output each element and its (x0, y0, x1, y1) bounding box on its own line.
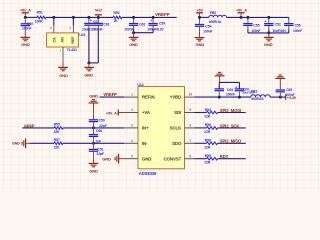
svg-text:+: + (90, 19, 92, 23)
svg-text:RDY: RDY (220, 154, 229, 159)
svg-text:C56: C56 (295, 24, 301, 28)
svg-text:3: 3 (131, 124, 133, 128)
resistor R51 100R (37, 16, 46, 19)
pin 1 (REFIN) stub (124, 96, 138, 98)
wire R56 to net label (218, 127, 246, 129)
svg-text:AN: AN (61, 37, 65, 43)
svg-text:+5V_A: +5V_A (106, 111, 117, 115)
svg-text:6: 6 (189, 154, 191, 158)
svg-text:22R: 22R (204, 161, 211, 165)
svg-text:R54: R54 (205, 108, 211, 112)
svg-text:+VA: +VA (142, 110, 151, 115)
svg-text:U12: U12 (137, 83, 144, 87)
svg-text:100nF: 100nF (293, 29, 302, 33)
node +5V_A junction (240, 16, 243, 19)
svg-text:GND: GND (142, 156, 151, 161)
wire +5V to FB2 (200, 16, 209, 18)
node C63 junction (87, 16, 90, 19)
resistor R57 22K (54, 142, 63, 145)
wire FB2 to +5V_A rail (227, 16, 289, 18)
svg-text:FB2: FB2 (210, 11, 216, 15)
svg-text:GND: GND (102, 156, 111, 161)
svg-text:GND: GND (84, 73, 93, 78)
svg-text:TL431: TL431 (67, 48, 77, 52)
capacitor C56 100nF (288, 17, 290, 19)
ground GND under C63/C61 (88, 63, 90, 67)
svg-text:Vref: Vref (95, 9, 102, 13)
svg-text:C50: C50 (99, 119, 105, 123)
svg-text:1K: 1K (113, 19, 118, 23)
node C63 +VBD junction (218, 96, 221, 99)
svg-text:GND: GND (12, 142, 20, 146)
pin 2 (+VA) stub (124, 112, 138, 114)
svg-text:C59: C59 (159, 22, 165, 26)
svg-text:SPI2_MISO: SPI2_MISO (220, 139, 242, 144)
capacitor C63 100nF (+VBD) (218, 92, 220, 98)
wire pin 6 to R59 (195, 158, 207, 160)
resistor R55 22K (54, 127, 63, 130)
wire decoupling ground rail (248, 32, 289, 34)
ground GND under C51 (93, 157, 95, 163)
svg-text:100uF/6.3V: 100uF/6.3V (147, 27, 164, 31)
svg-text:+: + (264, 19, 266, 23)
svg-text:C62: C62 (139, 23, 145, 27)
resistor R56 22R (207, 127, 218, 130)
pin 4 (IN-) stub (124, 142, 138, 144)
svg-text:R58: R58 (205, 139, 211, 143)
capacitor C54 100nF (+5V) (199, 17, 201, 19)
node ground rail junction (267, 31, 270, 34)
wire TL431 REF pin drop (72, 17, 74, 25)
node C62 junction (132, 16, 135, 19)
svg-text:+VBD: +VBD (170, 95, 181, 100)
svg-text:R59: R59 (205, 154, 211, 158)
svg-text:C65: C65 (286, 88, 292, 92)
wire C59 down and join (152, 29, 154, 33)
capacitor C59 100uF/6.3V (VREFP) (152, 17, 154, 19)
wire C56 down (288, 29, 290, 33)
svg-text:SCLK: SCLK (170, 126, 182, 131)
wire R54 to net label (218, 112, 246, 114)
svg-text:10: 10 (189, 93, 193, 97)
svg-text:2: 2 (131, 108, 133, 112)
capacitor C50 22pF (93, 113, 95, 120)
capacitor C63 10uF/16V (Vref) (88, 17, 90, 19)
capacitor C55 100nF (247, 17, 249, 19)
wire VREFP to pin 1 (99, 96, 124, 98)
resistor R59 22R (207, 157, 218, 160)
svg-text:+5V: +5V (197, 8, 204, 12)
svg-text:U11: U11 (79, 33, 85, 37)
wire +VBD ground rail top (219, 81, 239, 83)
svg-text:100nF: 100nF (251, 29, 260, 33)
resistor R54 22R (207, 111, 218, 114)
svg-text:GND: GND (89, 168, 98, 173)
power +3.3V port (285, 94, 287, 100)
node IN+ junction (92, 126, 95, 129)
wire C62 down (133, 29, 135, 33)
svg-text:GND: GND (21, 42, 30, 47)
node +5V_A junction (24, 16, 27, 19)
ground GND under C52 (268, 33, 270, 37)
op-amp U11 TL431 body (47, 33, 79, 47)
svg-text:SPI2_MOSI: SPI2_MOSI (220, 108, 241, 113)
capacitor C40 100nF (24, 19, 26, 23)
svg-text:VREFP: VREFP (103, 92, 117, 97)
svg-text:R55: R55 (54, 122, 60, 126)
node IN- junction (92, 142, 95, 145)
wire TL431 cathode pin drop (53, 17, 55, 25)
svg-text:100R: 100R (35, 20, 43, 24)
svg-text:GND: GND (59, 73, 68, 78)
svg-text:GND: GND (129, 42, 138, 47)
node C55 junction (246, 16, 249, 19)
svg-text:22K: 22K (54, 145, 61, 149)
wire R51 to Vref node (46, 16, 113, 18)
svg-text:600R/1A: 600R/1A (209, 20, 222, 24)
resistor R52 1K (113, 16, 122, 19)
svg-text:1nF: 1nF (95, 139, 101, 143)
wire R58 to net label (218, 142, 246, 144)
svg-text:10uF/16V: 10uF/16V (273, 29, 288, 33)
pin 6 (CONVST) stub (185, 158, 195, 160)
svg-text:SDI: SDI (174, 110, 181, 115)
pin 5 (GND) stub (124, 158, 138, 160)
svg-text:22K: 22K (54, 130, 61, 134)
wire C55 down (247, 29, 249, 33)
capacitor C65 100nF (+3.3V) (279, 92, 281, 97)
svg-text:CONVST: CONVST (163, 156, 181, 161)
svg-text:1: 1 (131, 93, 133, 97)
svg-text:R52: R52 (113, 11, 119, 15)
svg-text:7: 7 (189, 139, 191, 143)
capacitor C66 1nF (93, 128, 95, 134)
svg-text:+3.3V: +3.3V (287, 96, 297, 100)
svg-text:5: 5 (131, 154, 133, 158)
node C59 junction (152, 16, 155, 19)
svg-text:IN-: IN- (142, 141, 148, 146)
svg-text:C54: C54 (205, 25, 211, 29)
svg-text:GND: GND (264, 42, 273, 47)
node Vref junction (97, 16, 100, 19)
wire C52 down (268, 29, 270, 33)
svg-text:22R: 22R (204, 130, 211, 134)
svg-text:+5V_A: +5V_A (236, 8, 247, 12)
node ground join (87, 61, 90, 64)
svg-text:REFIN: REFIN (142, 95, 155, 100)
svg-text:C52: C52 (275, 22, 281, 26)
node C52 junction (267, 16, 270, 19)
resistor R58 22R (207, 142, 218, 145)
svg-text:100nF: 100nF (203, 29, 212, 33)
capacitor C62 100nF (VREFP) (133, 17, 135, 19)
capacitor C64 10uF/16V (+VBD) (238, 92, 240, 98)
svg-text:22R: 22R (204, 115, 211, 119)
svg-text:R57: R57 (54, 138, 60, 142)
svg-text:C66: C66 (96, 129, 102, 133)
svg-text:REF: REF (71, 36, 75, 44)
capacitor C52 10uF/16V (268, 17, 270, 19)
wire R57 to pin 4 (63, 142, 124, 144)
wire ground join under caps (89, 62, 98, 64)
svg-text:600R/1A: 600R/1A (251, 97, 264, 101)
wire AINP to R55 (22, 127, 54, 129)
wire C61 down to ground rail (97, 29, 99, 63)
svg-text:100nF: 100nF (124, 27, 133, 31)
pin 3 (IN+) stub (124, 127, 138, 129)
wire +5V_A rail to R51 (25, 16, 37, 18)
node C64 +VBD junction (238, 96, 241, 99)
wire FB3 to +3.3V (270, 96, 286, 98)
ground GND under TL431 (62, 61, 64, 67)
svg-text:100nF: 100nF (226, 92, 235, 96)
svg-text:22pF: 22pF (96, 152, 104, 156)
wire GND port to R57 (30, 142, 54, 144)
svg-text:9: 9 (189, 108, 191, 112)
IC U12 ADS8339 body (138, 87, 185, 169)
node TL431 CA junction (52, 16, 55, 19)
wire R52 to VREFP (122, 16, 177, 18)
pin 10 (+VBD) stub (185, 96, 195, 98)
svg-text:R51: R51 (37, 11, 43, 15)
svg-text:GND: GND (196, 42, 205, 47)
svg-text:22R: 22R (204, 145, 211, 149)
svg-text:VREFP: VREFP (155, 12, 170, 17)
wire pin 7 to R58 (195, 142, 207, 144)
svg-text:+: + (235, 85, 237, 89)
ground GND under C62 (133, 33, 135, 38)
svg-text:SDO: SDO (172, 141, 182, 146)
svg-text:C55: C55 (253, 24, 259, 28)
ground GND under C40 (24, 31, 26, 37)
svg-text:C61: C61 (103, 22, 109, 26)
pin 9 (SDI) stub (185, 112, 195, 114)
svg-text:C51: C51 (97, 147, 103, 151)
wire TL431 anode pin down (62, 47, 64, 61)
svg-text:FB3: FB3 (251, 89, 257, 93)
wire R59 to net label (218, 158, 246, 160)
node TL431 REF junction (72, 16, 75, 19)
svg-text:22pF: 22pF (99, 124, 107, 128)
svg-text:4: 4 (131, 139, 133, 143)
svg-text:ADS8339: ADS8339 (139, 171, 157, 176)
capacitor C51 22pF (93, 143, 95, 149)
wire R55 to pin 3 (63, 127, 124, 129)
svg-text:IN+: IN+ (142, 126, 149, 131)
ground GND above C65 (279, 79, 281, 90)
wire pin 10 rail (195, 96, 251, 98)
pin 7 (SDO) stub (185, 142, 195, 144)
svg-text:+: + (150, 19, 152, 23)
wire pin 9 to R54 (195, 112, 207, 114)
node C65 junction (279, 96, 282, 99)
wire C63 down to ground rail (88, 29, 90, 63)
svg-text:8: 8 (189, 124, 191, 128)
node +5V junction (198, 16, 201, 19)
svg-text:C40: C40 (27, 22, 33, 26)
ground GND above C63 (219, 76, 221, 82)
svg-text:R56: R56 (205, 123, 211, 127)
ground GND under C54 (199, 31, 201, 37)
svg-text:100nF: 100nF (22, 27, 31, 31)
svg-text:SPI2_SCK: SPI2_SCK (220, 123, 240, 128)
node C62/C59 ground join (132, 31, 135, 34)
svg-text:GND: GND (89, 93, 98, 98)
pin 8 (SCLK) stub (185, 127, 195, 129)
wire pin 8 to R56 (195, 127, 207, 129)
svg-text:CA: CA (53, 37, 57, 43)
svg-text:+5V_A: +5V_A (20, 8, 31, 12)
capacitor C61 100nF (Vref) (97, 17, 99, 19)
